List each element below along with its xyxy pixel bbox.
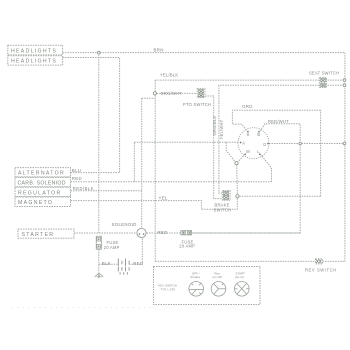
svg-text:20 AMP: 20 AMP bbox=[104, 245, 120, 250]
terminal L bbox=[257, 149, 260, 155]
node brake junction bbox=[236, 195, 239, 198]
node G wire end bbox=[343, 142, 346, 145]
svg-text:STARTER: STARTER bbox=[22, 232, 55, 238]
svg-text:SOLENOID: SOLENOID bbox=[112, 222, 137, 227]
legend circle OFF bbox=[189, 272, 204, 297]
svg-text:YEL/BLK: YEL/BLK bbox=[160, 72, 178, 77]
svg-text:BRN: BRN bbox=[154, 47, 164, 52]
legend circle RUN bbox=[211, 272, 226, 297]
node BRN junction bbox=[97, 51, 100, 54]
wire jog to solenoid vertical bbox=[142, 97, 156, 99]
svg-text:(on-off): (on-off) bbox=[213, 275, 223, 279]
label BRAKE SWITCH bbox=[214, 203, 232, 213]
svg-text:M: M bbox=[246, 149, 250, 154]
wire A branch riser bbox=[133, 142, 135, 182]
svg-text:HEADLIGHTS: HEADLIGHTS bbox=[11, 48, 57, 54]
svg-text:(brake): (brake) bbox=[191, 275, 201, 279]
svg-text:ORG: ORG bbox=[242, 104, 253, 109]
wire L to RED horizontal bbox=[260, 154, 271, 182]
svg-text:A: A bbox=[242, 141, 245, 146]
svg-text:RED: RED bbox=[158, 230, 168, 235]
fuse F1 vertical bbox=[96, 236, 101, 249]
label FUSE 20 AMP right bbox=[179, 239, 195, 248]
faint fold line bbox=[12, 307, 152, 309]
svg-text:REGULATOR: REGULATOR bbox=[18, 190, 62, 196]
rev switch connector bbox=[315, 259, 322, 264]
svg-text:REV SWITCH: REV SWITCH bbox=[305, 267, 337, 272]
svg-text:RED/BLK: RED/BLK bbox=[73, 186, 94, 191]
wire ORG/WHT bbox=[157, 92, 198, 94]
headlight box 2 bbox=[8, 56, 63, 65]
terminal B bbox=[257, 131, 260, 137]
svg-text:ORG/BLK: ORG/BLK bbox=[212, 116, 217, 136]
terminal G bbox=[263, 142, 269, 147]
wire PTO out ORG/BLK bbox=[205, 96, 222, 199]
svg-text:G: G bbox=[263, 142, 266, 147]
svg-text:B: B bbox=[257, 132, 260, 137]
wire A interlock branch bbox=[226, 142, 235, 162]
solenoid circle bbox=[137, 228, 146, 237]
brake switch connector bbox=[222, 191, 230, 201]
alternator box bbox=[15, 168, 71, 177]
wire B RED/WHT bbox=[192, 124, 300, 233]
svg-text:SWITCH: SWITCH bbox=[214, 207, 232, 212]
rev switch wire bbox=[155, 260, 345, 262]
terminal A bbox=[240, 141, 246, 146]
wire brake node to interlock riser bbox=[239, 195, 320, 197]
svg-text:TYP 1 STK: TYP 1 STK bbox=[161, 288, 176, 292]
legend key switch text bbox=[159, 284, 177, 292]
node seat wire end bottom bbox=[343, 84, 346, 87]
legend circle START bbox=[235, 272, 250, 297]
legend box bbox=[154, 267, 261, 305]
svg-text:ORG/WHT: ORG/WHT bbox=[161, 91, 183, 96]
wire ground vertical left bbox=[98, 54, 100, 233]
wire junction down to brake node bbox=[236, 165, 239, 194]
svg-text:RED: RED bbox=[72, 176, 82, 181]
wire ORG horizontal bbox=[232, 110, 320, 130]
wire YEL/BLK drop bbox=[154, 80, 156, 92]
wire A terminal bbox=[134, 141, 239, 143]
svg-text:MAGNETO: MAGNETO bbox=[18, 200, 53, 206]
terminal M bbox=[244, 149, 250, 155]
wire headlight2 to BLU vertical bbox=[63, 58, 120, 173]
wire RED/BLK bbox=[71, 190, 142, 192]
wire BRN top bbox=[63, 52, 345, 54]
wire RED long horizontal bbox=[71, 181, 272, 183]
node G junction B riser bbox=[299, 142, 302, 145]
wire YEL/BLK seat top bbox=[155, 79, 344, 81]
wire BLU bbox=[71, 172, 120, 174]
svg-text:PTO SWITCH: PTO SWITCH bbox=[183, 102, 211, 107]
wire battery RED to solenoid bbox=[129, 238, 142, 265]
terminal S bbox=[247, 131, 250, 137]
svg-text:CARB. SOLENIOD: CARB. SOLENIOD bbox=[18, 181, 66, 187]
node ORG/WHT junction bbox=[153, 92, 156, 95]
carb solenoid box bbox=[15, 177, 71, 186]
regulator box bbox=[15, 187, 71, 196]
starter box bbox=[18, 229, 74, 238]
wire YEL magneto bbox=[71, 198, 238, 209]
pto switch connector bbox=[197, 89, 205, 98]
node interlock junction bbox=[235, 162, 238, 165]
wire fuse1 to battery BLK bbox=[98, 249, 100, 272]
wire interlock riser bbox=[320, 110, 322, 196]
svg-text:SEAT SWITCH: SEAT SWITCH bbox=[309, 71, 339, 76]
svg-text:ALTERNATOR: ALTERNATOR bbox=[18, 171, 65, 177]
fuse F2 20 amp bbox=[181, 231, 192, 235]
wire main power rail bbox=[74, 232, 300, 234]
ignition switch circle bbox=[238, 128, 269, 159]
wire seat lower YEL/WHT bbox=[219, 85, 344, 193]
svg-text:(on-st): (on-st) bbox=[235, 275, 244, 279]
magneto box bbox=[15, 197, 71, 207]
svg-text:YEL: YEL bbox=[159, 196, 168, 201]
seat switch connector bbox=[320, 78, 327, 88]
svg-text:HEADLIGHTS: HEADLIGHTS bbox=[11, 59, 57, 65]
wire right-edge ground loop vertical bbox=[344, 53, 346, 262]
ground bbox=[95, 273, 104, 278]
wire long left vertical to rev bbox=[154, 95, 156, 261]
wire solenoid top vertical bbox=[141, 98, 143, 228]
wire M to junction bbox=[238, 154, 245, 162]
wire BLK battery bbox=[99, 263, 118, 265]
label FUSE 20 AMP left bbox=[104, 240, 120, 250]
headlight box 1 bbox=[8, 45, 63, 55]
svg-text:RED/WHT: RED/WHT bbox=[268, 119, 289, 124]
svg-text:BLK: BLK bbox=[102, 261, 111, 266]
node seat wire end top bbox=[343, 79, 346, 82]
battery bbox=[118, 259, 129, 275]
svg-text:20 AMP: 20 AMP bbox=[179, 244, 195, 249]
wire G to ground loop bbox=[269, 143, 345, 145]
svg-text:S: S bbox=[247, 132, 250, 137]
svg-text:YEL/WHT: YEL/WHT bbox=[219, 119, 224, 139]
